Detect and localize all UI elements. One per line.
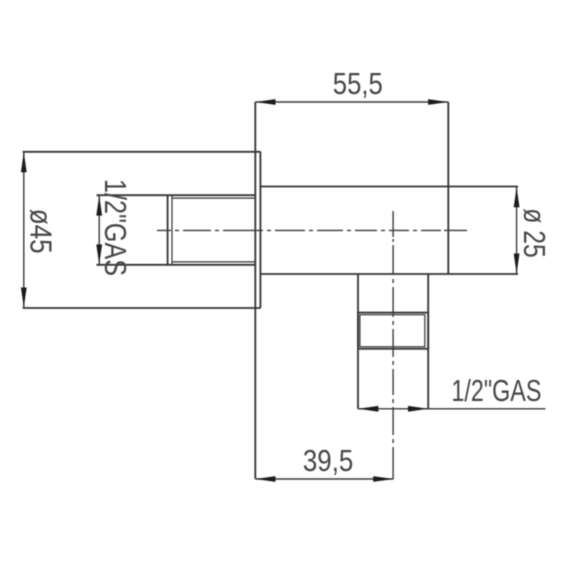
thread M1 chamfer bbox=[171, 195, 173, 265]
arrow o45 down bbox=[21, 288, 27, 308]
dim thread M1 line bbox=[98, 195, 100, 265]
arrow thread M1 up bbox=[96, 195, 102, 215]
centerline vertical outlet bbox=[392, 211, 394, 479]
thread M1 root bottom bbox=[172, 261, 256, 263]
svg-text:ø 25: ø 25 bbox=[517, 208, 551, 258]
svg-text:ø45: ø45 bbox=[24, 209, 58, 254]
arrow 39,5 right bbox=[373, 476, 393, 482]
thread M1 OD top bbox=[97, 194, 256, 196]
outlet thread band inner bbox=[360, 315, 425, 347]
svg-text:1/2"GAS: 1/2"GAS bbox=[98, 179, 132, 276]
arrow outlet thread right bbox=[408, 406, 428, 412]
svg-text:1/2"GAS: 1/2"GAS bbox=[451, 374, 541, 408]
body top edge + dim025 extension bbox=[260, 186, 518, 188]
dim 39,5 line bbox=[255, 478, 393, 480]
thread M1 end face bbox=[167, 195, 169, 265]
arrow o45 up bbox=[21, 152, 27, 172]
flange plate right edge bbox=[259, 152, 261, 308]
arrow 55,5 left bbox=[255, 99, 275, 105]
body bottom edge + dim025 extension bbox=[260, 273, 518, 275]
flange top edge + dim045 extension bbox=[23, 151, 261, 153]
arrow o25 up bbox=[514, 187, 520, 207]
arrow o25 down bbox=[514, 254, 520, 274]
arrow 55,5 right bbox=[428, 99, 448, 105]
dim o25 line bbox=[516, 187, 518, 274]
arrow 39,5 left bbox=[255, 476, 275, 482]
thread M1 OD bottom bbox=[97, 264, 256, 266]
dim outlet thread line + leader bbox=[358, 408, 546, 410]
body right edge + dim555 extension bbox=[447, 102, 449, 274]
dim 55,5 line bbox=[255, 101, 448, 103]
thread M1 root top bbox=[172, 197, 256, 199]
outlet right edge bbox=[427, 274, 429, 409]
outlet left edge bbox=[357, 274, 359, 409]
arrow thread M1 down bbox=[96, 244, 102, 264]
centerline horizontal bbox=[157, 229, 467, 231]
flange bottom edge + dim045 extension bbox=[23, 307, 261, 309]
dim o45 line bbox=[23, 152, 25, 308]
arrow outlet thread left bbox=[358, 406, 378, 412]
svg-text:39,5: 39,5 bbox=[303, 444, 354, 478]
outlet thread band outer bbox=[358, 313, 428, 349]
wall plane / extension line bbox=[254, 102, 256, 479]
svg-text:55,5: 55,5 bbox=[333, 67, 383, 101]
